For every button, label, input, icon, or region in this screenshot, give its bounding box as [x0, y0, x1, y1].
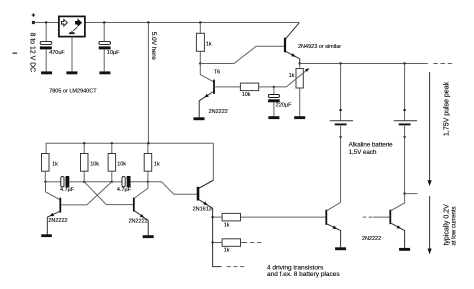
wire Q1 collector [46, 182, 60, 200]
node battery2 bottom junction [403, 192, 405, 194]
wire base of 2N4923 [200, 46, 284, 63]
plus terminal marker [32, 13, 35, 16]
svg-text:220µF: 220µF [276, 103, 292, 109]
resistor R1 1k [196, 33, 204, 51]
resistor R6 1k [144, 154, 152, 172]
node R7 tap [211, 216, 213, 218]
svg-text:4.7µF: 4.7µF [60, 187, 75, 193]
ground under 10uF [99, 71, 110, 74]
regulator input arrow (open) [61, 19, 67, 26]
resistor R3 1k [42, 154, 50, 172]
pulse rail continuation dashes [433, 63, 452, 65]
transistor Q1 2N2222 [47, 198, 60, 235]
transistor Q3 2N1613 [198, 180, 222, 266]
wire MV supply rail [46, 143, 213, 188]
regulator ground tab [69, 31, 74, 34]
wire pulse rail [300, 63, 428, 65]
regulator output arrow (solid) [76, 19, 82, 26]
ground under Q4 [335, 247, 346, 250]
wire 220uF top [273, 87, 275, 95]
svg-text:1k: 1k [224, 248, 230, 254]
wire pot top [299, 64, 301, 69]
wire R1 bottom [199, 51, 201, 63]
node rail 5V feed [147, 142, 149, 144]
ground under T6 [194, 117, 205, 120]
wire Q5 base [373, 216, 389, 218]
svg-text:7805 or LM2940CT: 7805 or LM2940CT [49, 89, 97, 95]
svg-text:Alkaline batterie: Alkaline batterie [349, 141, 394, 148]
node 10uF tap [103, 21, 105, 23]
wire R6 top [147, 143, 149, 153]
wire R7 left [213, 216, 223, 218]
svg-text:2N2222: 2N2222 [129, 218, 148, 224]
svg-text:8 to 12 V DC: 8 to 12 V DC [28, 33, 35, 72]
transistor Q5 2N2222 [390, 210, 404, 248]
ground under Q2 [143, 235, 154, 238]
wire R8 right [241, 242, 248, 244]
transistor Q6 2N4923 [285, 23, 300, 64]
svg-text:2N1613: 2N1613 [193, 207, 212, 213]
wiper arrowhead [305, 68, 309, 72]
resistor R4 10k [81, 154, 89, 172]
svg-text:2N4923 or similar: 2N4923 or similar [298, 44, 341, 50]
capacitor C2 10uF [99, 41, 111, 49]
svg-text:470uF: 470uF [49, 50, 65, 56]
svg-text:1,5V each: 1,5V each [349, 149, 377, 156]
transistor Q4 2N2222 [326, 210, 340, 248]
capacitor C5 4.7uF [122, 176, 131, 187]
svg-text:and f.ex. 8 battery places: and f.ex. 8 battery places [267, 271, 340, 278]
node A [44, 181, 46, 183]
wire pot bottom [299, 88, 301, 116]
transistor Q2 2N2222 [134, 198, 148, 236]
ground under regulator [66, 71, 77, 74]
resistor R5 10k [108, 154, 116, 172]
measure arrow 0.2V [428, 196, 432, 254]
wire battery1 lower [327, 124, 340, 210]
wire T6 base [214, 86, 240, 88]
capacitor C3 220uF [268, 95, 280, 103]
wire top rail left [34, 22, 59, 24]
node battery2 plus [403, 109, 405, 111]
ground under pot [294, 116, 305, 119]
potentiometer P1 1k [296, 69, 303, 89]
minus lead stub at left edge [13, 52, 18, 54]
wire R5 top [111, 143, 113, 153]
node T6 collector junction [199, 62, 201, 64]
ground under Q5 [399, 248, 410, 251]
wire battery2 to Q5 [391, 194, 404, 211]
node B [83, 181, 85, 183]
node filter [273, 86, 275, 88]
wire Q2 collector [135, 182, 148, 198]
wire battery1 upper [340, 64, 342, 121]
wire T6 collector [200, 64, 213, 82]
capacitor C4 4.7uF [61, 176, 70, 187]
svg-text:2N2222: 2N2222 [209, 109, 228, 115]
wire 470uF top [45, 23, 47, 42]
node battery2 minus [403, 136, 405, 138]
svg-text:1k: 1k [154, 162, 160, 168]
svg-text:1k: 1k [52, 162, 58, 168]
wire A to C4 [46, 181, 61, 183]
regulator U1 box [59, 16, 85, 36]
wire C5 to D [131, 181, 148, 183]
dashes before Q5 base [363, 216, 373, 218]
svg-text:10k: 10k [90, 162, 99, 168]
node R8 tap [211, 241, 213, 243]
svg-text:2N2222: 2N2222 [48, 218, 67, 224]
wire stub right of node [405, 193, 418, 195]
svg-text:10k: 10k [242, 92, 251, 98]
wire 10uF top [103, 23, 105, 42]
input terminal node [32, 21, 35, 24]
node C [111, 181, 113, 183]
wire R8 left [213, 242, 223, 244]
wire 220uF bottom [273, 102, 275, 116]
node battery1 top [339, 62, 341, 64]
node rail 10k#1 [83, 142, 85, 144]
wire B to C [84, 181, 112, 183]
svg-text:1k: 1k [206, 42, 212, 48]
wire C4 to B [69, 181, 84, 183]
dashes after Q3 emitter [227, 266, 244, 268]
node battery2 top [403, 62, 405, 64]
node battery1 plus [339, 109, 341, 111]
svg-text:1,75V pulse peak: 1,75V pulse peak [443, 81, 450, 136]
wire 10uF bottom [103, 49, 105, 71]
wire R7 to Q4 base [241, 216, 326, 218]
resistor R8 1k [222, 239, 240, 247]
svg-text:1k: 1k [289, 73, 295, 79]
measure arrow 1,75V [428, 72, 432, 186]
node 470uF tap [45, 21, 47, 23]
wire R5 bottom [111, 171, 113, 182]
svg-text:at low currents: at low currents [452, 206, 458, 245]
svg-text:1k: 1k [224, 222, 230, 228]
svg-text:T6: T6 [214, 69, 220, 75]
wire battery2 lower [404, 124, 406, 193]
battery B2 [394, 121, 417, 125]
wire cross B to Q2 base [84, 182, 133, 205]
wire top rail right of regulator [85, 22, 299, 24]
wire 470uF bottom [45, 49, 47, 71]
regulator internal lead [73, 27, 77, 31]
wire wiper [274, 70, 307, 87]
wire R1 top [199, 23, 201, 34]
wire R3 bottom [44, 171, 46, 182]
node 5V branch [147, 21, 149, 23]
wire R2 to node [259, 86, 274, 88]
node rail 10k#2 [111, 142, 113, 144]
capacitor C1 470uF [40, 41, 52, 49]
svg-text:2N2222: 2N2222 [362, 236, 381, 242]
wire battery2 upper [404, 64, 406, 121]
ground under 220uF [268, 116, 279, 119]
resistor R2 10k [240, 83, 258, 91]
node R1 top [199, 21, 201, 23]
ground under 470uF [41, 71, 52, 74]
resistor R7 1k [222, 213, 240, 221]
svg-text:typically 0.2V: typically 0.2V [443, 204, 450, 246]
battery B1 [330, 121, 353, 125]
svg-text:4.7µF: 4.7µF [117, 187, 132, 193]
ground under Q1 [41, 234, 52, 237]
wire C to C5 [112, 181, 122, 183]
svg-text:10µF: 10µF [107, 50, 120, 56]
wire 5V vertical drop [147, 23, 149, 144]
wire R6 bottom [147, 171, 149, 182]
wire R4 top [83, 143, 85, 153]
wire R4 bottom [83, 171, 85, 182]
transistor T6 2N2222 [199, 80, 214, 118]
wire D to Q3 base [148, 182, 197, 195]
svg-text:5.0V here: 5.0V here [150, 32, 157, 61]
wire regulator ground [71, 37, 73, 72]
node D [147, 181, 149, 183]
dashes after R8 [250, 242, 262, 244]
node pulse rail start [299, 62, 301, 64]
wire cross C to Q1 base [61, 182, 112, 205]
svg-text:10k: 10k [117, 162, 126, 168]
node battery1 minus [339, 136, 341, 138]
